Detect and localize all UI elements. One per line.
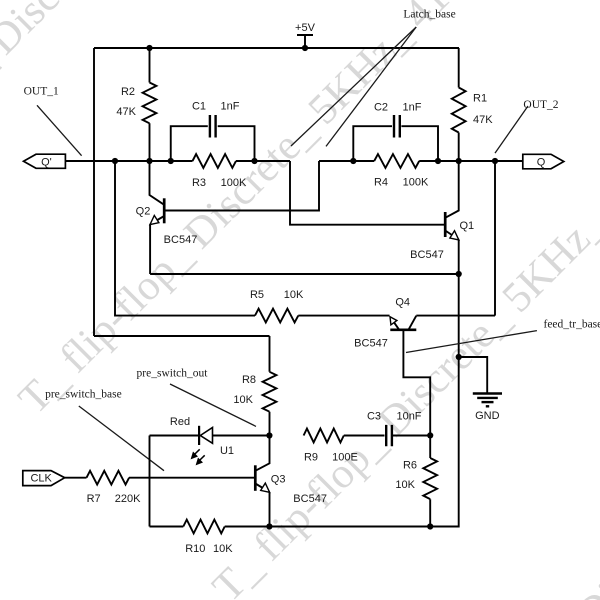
svg-text:U1: U1 [220,445,234,457]
svg-text:R3: R3 [192,177,206,189]
pointer pre_switch_out [170,384,256,426]
pointer OUT_2 [495,106,528,153]
svg-text:220K: 220K [115,493,141,505]
node Q' row C1 right [251,158,257,164]
node Q' row C1 left [168,158,174,164]
svg-text:100K: 100K [221,177,247,189]
svg-text:C1: C1 [192,100,206,112]
node ground junction [456,354,462,360]
resistor R8 [233,336,276,436]
svg-text:1nF: 1nF [403,101,422,113]
+5V power symbol [295,22,316,48]
node Q' row R2/Q2 tap [146,158,152,164]
svg-text:Latch_base: Latch_base [403,9,455,21]
wire LED left leg [149,436,151,527]
svg-text:pre_switch_base: pre_switch_base [45,389,122,401]
svg-text:CLK: CLK [30,473,52,485]
svg-text:R2: R2 [121,86,135,98]
pointer Latch_base right [326,27,416,146]
transistor Q2 [136,161,198,274]
wire lower-left horizontal to R8 [94,335,270,337]
svg-text:Q2: Q2 [136,206,151,218]
svg-text:T_ flip-flop_ Discrete_ 5KHz_: T_ flip-flop_ Discrete_ 5KHz_ 41 [10,0,459,423]
svg-text:R7: R7 [87,493,101,505]
node C3/R6/Q4 junction [427,432,433,438]
resistor R2 [116,48,156,161]
transistor Q3 [255,436,327,527]
svg-text:R8: R8 [242,374,256,386]
LED U1 [150,416,270,465]
svg-text:Q1: Q1 [460,220,475,232]
node Q row C2 left [350,158,356,164]
svg-text:10K: 10K [395,479,415,491]
svg-text:BC547: BC547 [410,249,444,261]
svg-text:47K: 47K [473,114,493,126]
svg-text:R5: R5 [250,289,264,301]
svg-text:pre_switch_out: pre_switch_out [137,368,209,380]
resistor R1 [452,48,493,161]
node R8/LED/R9/Q3 junction [266,432,272,438]
terminal CLK [23,471,65,486]
transistor Q1 [410,161,474,274]
node bottom rail R6 [427,523,433,529]
svg-text:R6: R6 [403,460,417,472]
svg-text:Red: Red [170,416,190,428]
resistor R4 [374,154,429,188]
node Q row C2 right [435,158,441,164]
wire Q4 collector to OUT2 vertical [416,161,495,316]
transistor Q4 [354,296,430,435]
wire top rail [94,47,459,49]
wire emitters to ground rail [430,274,459,527]
wire Q'row to R5 [115,161,255,316]
ground [459,357,502,422]
svg-text:47K: 47K [116,106,136,118]
resistor R3 [192,154,247,189]
svg-text:10K: 10K [233,394,253,406]
capacitor C1 [171,100,255,161]
svg-text:OUT_2: OUT_2 [523,99,558,111]
svg-text:GND: GND [475,410,500,422]
pointer OUT_1 [37,105,82,155]
node emitters junction [456,271,462,277]
svg-text:Q: Q [537,157,546,169]
node bottom rail Q3 emitter [266,523,272,529]
svg-text:BC547: BC547 [293,493,327,505]
svg-text:BC547: BC547 [354,338,388,350]
node Q' row R5 tap [112,158,118,164]
svg-text:C3: C3 [367,411,381,423]
svg-text:1nF: 1nF [221,100,240,112]
svg-text:Q3: Q3 [271,473,286,485]
wire Q' row [65,160,290,162]
svg-text:BC547: BC547 [164,234,198,246]
node Q row R1/Q1 tap [456,158,462,164]
wire emitters row [150,273,459,275]
wire Q2 base to Q-row crossover [164,161,319,211]
svg-text:Q': Q' [41,156,52,168]
wire Q-row right side [319,160,523,162]
pointer feed_tr_base [406,331,537,353]
resistor R9 [304,429,358,464]
svg-text:R4: R4 [374,177,388,189]
resistor R5 [250,289,390,322]
terminal Q' [24,154,66,168]
wire bottom rail [150,526,459,528]
resistor R6 [395,435,437,526]
svg-text:C2: C2 [374,101,388,113]
wire left outer vertical [93,48,95,336]
svg-text:OUT_1: OUT_1 [24,86,59,98]
node Q row OUT2 tap [492,158,498,164]
node top rail R2 tap [146,45,152,51]
svg-text:R9: R9 [304,452,318,464]
pointer Latch_base left [291,27,416,146]
svg-text:R10: R10 [185,543,205,555]
resistor R10 [183,520,233,555]
svg-text:10nF: 10nF [396,411,421,423]
svg-text:feed_tr_base: feed_tr_base [544,319,600,331]
capacitor C2 [353,101,438,161]
svg-text:Q4: Q4 [395,296,410,308]
svg-text:10K: 10K [284,289,304,301]
capacitor C3 [344,411,430,447]
svg-text:R1: R1 [473,93,487,105]
wire Q' row to Q1 base crossover [290,161,445,225]
node top rail +5V tap [302,45,308,51]
svg-text:100E: 100E [332,452,358,464]
terminal Q [523,154,564,169]
resistor R7 [65,471,256,505]
svg-text:10K: 10K [213,543,233,555]
svg-text:100K: 100K [403,177,429,189]
svg-text:+5V: +5V [295,22,316,34]
pointer pre_switch_base [79,406,164,471]
